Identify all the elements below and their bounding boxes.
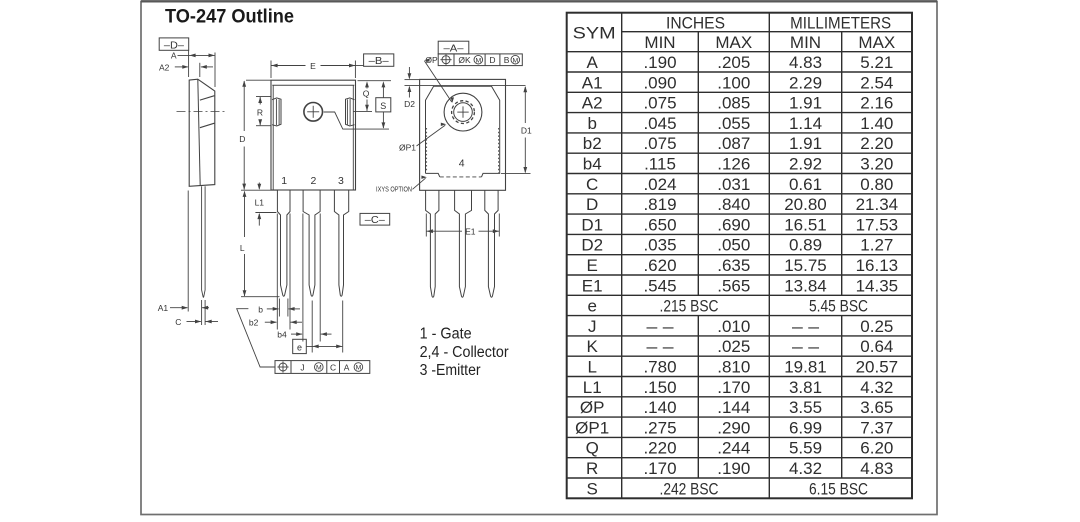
svg-text:b: b (587, 114, 596, 133)
svg-text:3.65: 3.65 (860, 398, 893, 417)
svg-text:.045: .045 (643, 114, 676, 133)
svg-text:IXYS OPTION: IXYS OPTION (376, 184, 412, 193)
svg-text:ØP1: ØP1 (399, 143, 416, 153)
datum box D (side view) (159, 38, 189, 50)
svg-text:R: R (257, 108, 263, 118)
side view body outline (189, 79, 215, 186)
svg-text:0.25: 0.25 (860, 317, 893, 336)
svg-text:D: D (489, 55, 495, 65)
back mounting hole outer (444, 93, 482, 131)
svg-text:MIN: MIN (644, 33, 675, 52)
svg-text:M: M (316, 365, 322, 372)
svg-text:.140: .140 (643, 398, 676, 417)
svg-text:2.20: 2.20 (860, 134, 893, 153)
svg-text:.025: .025 (717, 337, 750, 356)
svg-text:1: 1 (281, 175, 287, 187)
svg-text:J: J (300, 362, 304, 372)
side view chamfer line upper (200, 96, 215, 100)
svg-text:6.99: 6.99 (789, 418, 822, 437)
svg-text:MILLIMETERS: MILLIMETERS (790, 13, 891, 32)
svg-text:5.45 BSC: 5.45 BSC (809, 297, 868, 316)
svg-text:B: B (504, 55, 510, 65)
svg-text:3.55: 3.55 (789, 398, 822, 417)
svg-text:L1: L1 (255, 197, 265, 207)
svg-text:MAX: MAX (858, 33, 895, 52)
svg-text:.244: .244 (717, 439, 750, 458)
front pin 2 (303, 190, 320, 296)
svg-text:2: 2 (310, 175, 316, 187)
svg-text:–C–: –C– (365, 215, 385, 226)
svg-text:2.92: 2.92 (789, 154, 822, 173)
pin2 wide extension lines (b4) (302, 214, 304, 342)
svg-text:4.32: 4.32 (860, 378, 893, 397)
svg-text:.010: .010 (717, 317, 750, 336)
pin1 wide extension lines (b2) (276, 214, 278, 330)
svg-text:15.75: 15.75 (784, 256, 827, 275)
svg-text:.565: .565 (717, 276, 750, 295)
svg-text:3 -Emitter: 3 -Emitter (420, 362, 481, 379)
svg-text:.810: .810 (717, 357, 750, 376)
front view inner top line (272, 84, 354, 86)
svg-text:3: 3 (338, 175, 344, 187)
svg-text:A2: A2 (159, 63, 170, 73)
svg-text:20.57: 20.57 (856, 357, 899, 376)
svg-text:R: R (586, 459, 598, 478)
svg-text:D1: D1 (521, 125, 532, 135)
front hole crosshair (307, 111, 319, 113)
svg-text:.087: .087 (717, 134, 750, 153)
svg-text:L: L (587, 357, 596, 376)
svg-text:.190: .190 (643, 53, 676, 72)
dim A1 extension line (187, 191, 189, 312)
svg-text:J: J (588, 317, 597, 336)
svg-text:.085: .085 (717, 94, 750, 113)
svg-text:3.81: 3.81 (789, 378, 822, 397)
svg-text:.780: .780 (643, 357, 676, 376)
svg-text:MAX: MAX (715, 33, 752, 52)
front view body outline (271, 80, 356, 190)
svg-text:.170: .170 (643, 459, 676, 478)
dim E extension lines (270, 61, 272, 79)
svg-text:20.80: 20.80 (784, 195, 827, 214)
pin1 narrow extension lines (b) (278, 299, 280, 317)
svg-text:.075: .075 (643, 94, 676, 113)
svg-text:2.16: 2.16 (860, 94, 893, 113)
svg-text:INCHES: INCHES (666, 13, 725, 32)
svg-text:17.53: 17.53 (856, 215, 899, 234)
datum box B (364, 54, 394, 66)
dim D1 (501, 173, 531, 175)
back hole crosshair (457, 111, 468, 113)
svg-text:ØP: ØP (580, 398, 605, 417)
svg-text:1 - Gate: 1 - Gate (420, 326, 472, 343)
svg-text:M: M (356, 365, 362, 372)
svg-text:E1: E1 (465, 227, 476, 237)
svg-text:2.29: 2.29 (789, 73, 822, 92)
svg-text:– –: – – (647, 337, 675, 356)
datum box A (438, 41, 469, 54)
svg-text:1.40: 1.40 (860, 114, 893, 133)
side view centerline (177, 111, 226, 113)
dimension table grid (567, 13, 912, 499)
back hole dashed circle (452, 101, 475, 124)
svg-text:M: M (512, 57, 518, 64)
svg-text:1.91: 1.91 (789, 134, 822, 153)
leader from P to hole (425, 61, 452, 102)
dim D2 (405, 79, 420, 81)
dim e with box (293, 339, 307, 353)
front mounting hole (304, 103, 323, 122)
back view body outline (420, 79, 506, 190)
svg-text:1.27: 1.27 (860, 236, 893, 255)
svg-text:1.14: 1.14 (789, 114, 822, 133)
svg-text:b2: b2 (583, 134, 602, 153)
svg-text:4: 4 (459, 158, 465, 170)
back pin right (485, 190, 498, 297)
bottom feature control frame (275, 361, 370, 374)
svg-text:0.61: 0.61 (789, 175, 822, 194)
svg-text:.840: .840 (717, 195, 750, 214)
svg-text:21.34: 21.34 (856, 195, 899, 214)
svg-text:A: A (171, 50, 177, 60)
svg-text:5.59: 5.59 (789, 439, 822, 458)
svg-text:.215 BSC: .215 BSC (660, 297, 719, 316)
svg-text:7.37: 7.37 (860, 418, 893, 437)
svg-text:M: M (475, 57, 481, 64)
dim S with box (382, 81, 386, 87)
svg-text:.275: .275 (643, 418, 676, 437)
svg-text:ØK: ØK (458, 55, 471, 65)
svg-text:.090: .090 (643, 73, 676, 92)
body bottom extension line (left) (241, 189, 277, 191)
svg-text:b4: b4 (583, 154, 602, 173)
svg-text:C: C (330, 362, 336, 372)
svg-text:1.91: 1.91 (789, 94, 822, 113)
svg-text:.170: .170 (717, 378, 750, 397)
svg-text:E: E (587, 256, 598, 275)
svg-text:–B–: –B– (369, 56, 389, 67)
back view option dashed sides (426, 128, 428, 172)
IXYS OPTION leader (413, 178, 426, 189)
svg-text:e: e (297, 342, 302, 352)
dim R extension lines (256, 96, 271, 98)
side view lead (202, 186, 206, 297)
svg-text:4.32: 4.32 (789, 459, 822, 478)
svg-text:.290: .290 (717, 418, 750, 437)
svg-text:4.83: 4.83 (789, 53, 822, 72)
svg-text:E1: E1 (582, 276, 603, 295)
leader to bottom feature control frame (237, 309, 275, 367)
right side notch (346, 98, 355, 126)
dim D extension line top (246, 79, 271, 81)
dim E1 extension lines (425, 214, 427, 237)
svg-text:0.89: 0.89 (789, 236, 822, 255)
dim A2 extension line (199, 63, 201, 77)
svg-text:D: D (239, 134, 245, 144)
svg-text:.055: .055 (717, 114, 750, 133)
svg-text:19.81: 19.81 (784, 357, 827, 376)
leader from P1 to hole (417, 125, 446, 146)
svg-text:b: b (258, 304, 263, 314)
svg-text:TO-247 Outline: TO-247 Outline (165, 6, 294, 28)
svg-text:b2: b2 (249, 318, 259, 328)
back view top recess line / D1-D2 extension (405, 85, 526, 87)
svg-text:D: D (586, 195, 598, 214)
svg-text:4.83: 4.83 (860, 459, 893, 478)
svg-text:.144: .144 (717, 398, 750, 417)
svg-text:A1: A1 (158, 303, 169, 313)
svg-text:E: E (310, 61, 316, 71)
svg-text:A1: A1 (582, 73, 603, 92)
svg-text:D2: D2 (581, 236, 603, 255)
datum box C (360, 213, 390, 225)
svg-text:Q: Q (363, 89, 370, 99)
svg-text:13.84: 13.84 (784, 276, 827, 295)
svg-text:.620: .620 (643, 256, 676, 275)
svg-text:–A–: –A– (444, 44, 464, 55)
svg-text:L: L (240, 243, 245, 253)
svg-text:.100: .100 (717, 73, 750, 92)
svg-text:.115: .115 (644, 154, 676, 173)
svg-text:14.35: 14.35 (856, 276, 899, 295)
svg-text:.190: .190 (717, 459, 750, 478)
svg-text:2.54: 2.54 (860, 73, 893, 92)
dim L bottom extension line (241, 296, 280, 298)
svg-text:16.13: 16.13 (856, 256, 899, 275)
svg-text:– –: – – (647, 317, 675, 336)
dim A extension lines (188, 50, 190, 77)
svg-text:SYM: SYM (573, 24, 616, 43)
svg-text:5.21: 5.21 (860, 53, 893, 72)
svg-text:– –: – – (792, 317, 820, 336)
back pin left (426, 190, 439, 297)
svg-text:A2: A2 (582, 94, 603, 113)
svg-text:.205: .205 (717, 53, 750, 72)
svg-text:S: S (380, 101, 386, 111)
top feature control frame (438, 54, 522, 66)
svg-text:3.20: 3.20 (860, 154, 893, 173)
svg-text:K: K (587, 337, 599, 356)
dim L1 bottom extension line (255, 212, 276, 214)
side view chamfer line lower (200, 123, 215, 128)
front pin 1 (277, 190, 290, 296)
dim Q top extension line (358, 80, 392, 82)
svg-text:.690: .690 (717, 215, 750, 234)
svg-text:6.20: 6.20 (860, 439, 893, 458)
svg-text:.035: .035 (643, 236, 676, 255)
dim E tail to datum B (355, 65, 363, 67)
svg-text:0.80: 0.80 (860, 175, 893, 194)
svg-text:.635: .635 (717, 256, 750, 275)
svg-text:Q: Q (586, 439, 599, 458)
svg-text:A: A (587, 53, 599, 72)
border frame (141, 2, 937, 515)
front pin 3 (334, 190, 348, 296)
front hole leader to S (324, 112, 389, 129)
svg-text:A: A (344, 362, 350, 372)
svg-text:.050: .050 (717, 236, 750, 255)
svg-text:.545: .545 (643, 276, 676, 295)
svg-text:– –: – – (792, 337, 820, 356)
svg-text:.075: .075 (643, 134, 676, 153)
back view option dashed bottom (440, 176, 482, 178)
back hole inner circle (454, 103, 473, 122)
svg-text:L1: L1 (583, 378, 602, 397)
svg-text:S: S (587, 479, 598, 498)
svg-text:16.51: 16.51 (784, 215, 827, 234)
svg-text:C: C (175, 317, 181, 327)
svg-text:.126: .126 (717, 154, 750, 173)
svg-text:e: e (587, 297, 596, 316)
svg-text:.819: .819 (643, 195, 676, 214)
svg-text:ØP1: ØP1 (575, 418, 609, 437)
svg-text:D1: D1 (581, 215, 603, 234)
svg-text:6.15 BSC: 6.15 BSC (809, 479, 868, 498)
svg-text:D2: D2 (404, 99, 415, 109)
side view inner edge (198, 79, 200, 186)
back pin middle (455, 190, 472, 297)
svg-text:.650: .650 (643, 215, 676, 234)
svg-text:.024: .024 (643, 175, 676, 194)
svg-text:C: C (586, 175, 598, 194)
lead extension lines for C (201, 300, 203, 325)
svg-text:MIN: MIN (790, 33, 821, 52)
svg-text:.220: .220 (643, 439, 676, 458)
dim Q bottom extension line (354, 110, 373, 112)
svg-text:2,4 - Collector: 2,4 - Collector (420, 344, 509, 361)
back view inner outline (426, 86, 500, 177)
svg-text:0.64: 0.64 (860, 337, 893, 356)
svg-text:b4: b4 (277, 330, 287, 340)
svg-text:.242 BSC: .242 BSC (660, 479, 719, 498)
front view inner side lines (272, 85, 274, 190)
left side notch (272, 98, 281, 126)
svg-text:.031: .031 (717, 175, 750, 194)
svg-text:.150: .150 (643, 378, 676, 397)
pin2/pin3 center extension lines (e) (311, 301, 313, 353)
